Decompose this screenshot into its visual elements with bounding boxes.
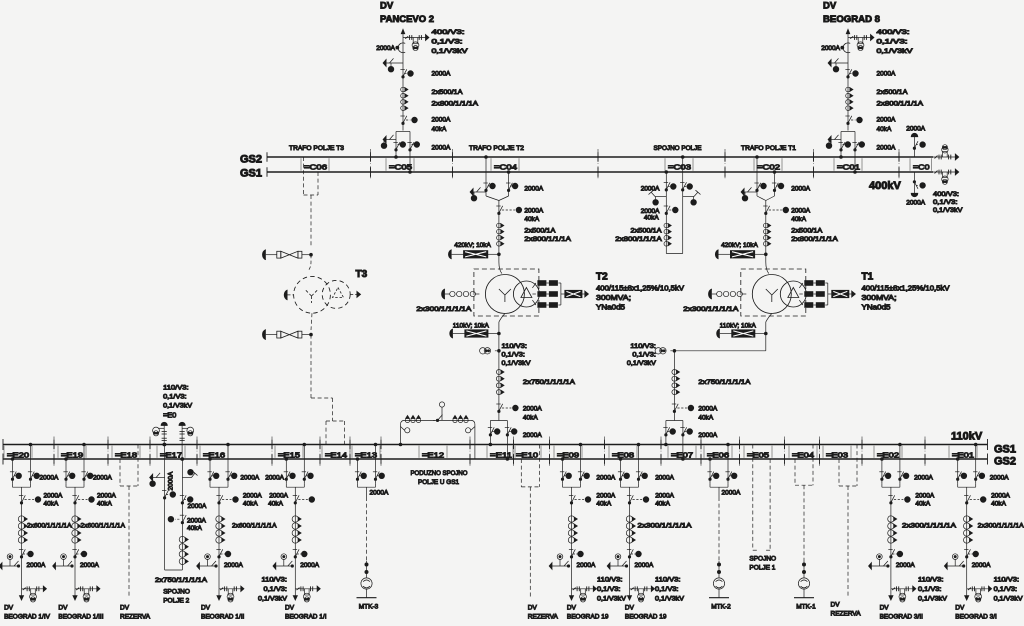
svg-text:=E16: =E16: [203, 451, 225, 460]
future bay =E03 dashed drops: [838, 459, 840, 486]
wire into transformer: [498, 250, 500, 254]
svg-text:=E20: =E20: [7, 451, 29, 460]
bay label =E02: [873, 446, 875, 458]
svg-text:2000A: 2000A: [791, 186, 810, 193]
svg-text:40kA: 40kA: [97, 501, 112, 508]
svg-text:=C04: =C04: [494, 163, 517, 172]
feeder current transformers: [18, 516, 24, 522]
wire disconnector to line exit: [218, 548, 220, 589]
bay separator 110kV: [513, 437, 515, 468]
svg-text:110/V3:: 110/V3:: [994, 577, 1020, 584]
coupler =E17 earthing switch right: [182, 477, 191, 479]
svg-text:0,1/V3:: 0,1/V3:: [933, 199, 958, 206]
svg-text:400/V3:: 400/V3:: [877, 29, 910, 36]
svg-text:2000A: 2000A: [821, 45, 840, 52]
svg-text:=E01: =E01: [952, 451, 974, 460]
future coupler =E05 dashed branches: [752, 445, 754, 551]
feeder drops from buses: [12, 459, 14, 483]
svg-text:40kA: 40kA: [44, 501, 59, 508]
svg-text:110/V3:: 110/V3:: [597, 577, 623, 584]
future surge arrester T3 HV: [263, 250, 266, 260]
coupler =E12 right sensor: [471, 427, 475, 431]
svg-text:420kV; 10kA: 420kV; 10kA: [454, 242, 491, 249]
wire to MTK-1 (PLC coupling): [803, 485, 805, 561]
svg-text:=E10: =E10: [516, 451, 538, 460]
svg-text:MTK-1: MTK-1: [796, 604, 816, 611]
circuit breaker LV: [496, 403, 500, 405]
node arrester LV: [498, 332, 501, 335]
svg-text:DV: DV: [285, 604, 295, 611]
node =E17 GS2: [181, 458, 184, 461]
node =C03 GS2: [681, 156, 684, 159]
svg-text:40kA: 40kA: [523, 415, 538, 422]
node feeder GS2: [561, 458, 564, 461]
node =C03 GS1: [665, 171, 668, 174]
earthing switch at bay top: [473, 191, 486, 193]
svg-text:2000A: 2000A: [635, 562, 654, 569]
coupler circuit breaker: [664, 205, 668, 207]
svg-text:0,1/V3kV: 0,1/V3kV: [877, 48, 914, 55]
svg-text:0,1/V3:: 0,1/V3:: [502, 352, 526, 359]
MTK-2 earth bar: [718, 589, 720, 598]
svg-text:2000A: 2000A: [300, 562, 319, 569]
coupler =E17 left branch: [164, 445, 166, 571]
bus section tick 400kV: [370, 152, 372, 162]
feeder merge: [65, 483, 67, 487]
svg-text:BEOGRAD 1/I: BEOGRAD 1/I: [285, 613, 327, 620]
bus disconnector GS1 BEOGRAD 8: [852, 142, 856, 144]
bay label =E17: [156, 446, 158, 458]
bus disconnector GS2 side: [754, 182, 758, 184]
node PANCEVO 2 GS2: [395, 156, 398, 159]
svg-text:=E0: =E0: [163, 411, 176, 420]
svg-text:GS1: GS1: [240, 168, 262, 180]
node GS2: [709, 458, 712, 461]
bus disconnector GS1 side: [897, 471, 901, 473]
svg-text:0,1/V3kV: 0,1/V3kV: [163, 403, 193, 410]
coupler disconnector left: [664, 182, 668, 184]
bay label =E19: [57, 446, 59, 458]
feeder line disconnector: [627, 549, 631, 551]
svg-text:110/V3:: 110/V3:: [918, 577, 944, 584]
bus disconnector GS1 side: [973, 471, 977, 473]
wire PANCEVO 2 main: [402, 63, 404, 131]
svg-text:2000A: 2000A: [596, 474, 615, 481]
svg-text:=C05: =C05: [389, 163, 412, 172]
node BEOGRAD 8 GS1: [854, 171, 857, 174]
bus disconnector GS1 side: [81, 471, 85, 473]
svg-text:2000A: 2000A: [188, 503, 207, 510]
node feeder GS1: [83, 443, 86, 446]
bus disconnector GS1 side: [772, 182, 776, 184]
bus disconnector GS2 BEOGRAD 8: [838, 142, 842, 144]
bus disconnector GS1 side: [225, 471, 229, 473]
svg-text:400/V3:: 400/V3:: [432, 29, 465, 36]
svg-text:T2: T2: [596, 272, 608, 283]
future bay =C06 dashed drops: [303, 157, 305, 195]
feeder drops from buses: [65, 459, 67, 483]
feeder circuit breaker =E15: [293, 495, 297, 497]
svg-text:110/V3:: 110/V3:: [502, 343, 528, 350]
bus disconnector GS2 side: [284, 471, 288, 473]
feeder earthing switch: [877, 554, 883, 560]
node GS1: [727, 443, 730, 446]
svg-text:2000A: 2000A: [914, 474, 933, 481]
wire disconnector to line exit: [966, 548, 968, 589]
feeder line disconnector: [19, 549, 23, 551]
svg-text:DV: DV: [831, 602, 841, 609]
bay separator 110kV: [319, 437, 321, 468]
line exit with CVT: [219, 588, 242, 590]
bay split to buses: [666, 420, 683, 422]
node VT branch: [673, 350, 676, 353]
bay label =E15: [274, 446, 276, 458]
wire breaker to CT: [890, 497, 892, 548]
wire T1 LV jog: [674, 350, 765, 352]
future bay =E14 dashed box: [325, 421, 327, 441]
wire breaker to CT: [571, 497, 573, 548]
node arrester HV: [765, 253, 768, 256]
svg-text:2000A: 2000A: [722, 490, 741, 497]
coupler =C03 left branch wire: [665, 172, 667, 254]
svg-text:0,1/V3:: 0,1/V3:: [597, 586, 621, 593]
svg-text:TRAFO POLJE T2: TRAFO POLJE T2: [469, 145, 524, 152]
node VT branch: [498, 350, 501, 353]
bay separator 400kV: [370, 149, 372, 180]
feeder earthing switch: [615, 554, 621, 560]
bus disconnector GS2 side: [680, 427, 684, 429]
coupler =E12 top VT: [441, 407, 443, 420]
svg-text:2000A: 2000A: [577, 562, 596, 569]
svg-text:2000A: 2000A: [240, 474, 259, 481]
feeder drops from buses: [562, 459, 564, 483]
coupler earthing switch left: [655, 196, 666, 198]
bus voltage transformer =E0 on GS1: [161, 422, 167, 425]
svg-text:=E08: =E08: [612, 451, 634, 460]
svg-text:420kV; 10kA: 420kV; 10kA: [721, 242, 758, 249]
svg-text:2000A: 2000A: [370, 490, 389, 497]
bay split PANCEVO 2: [396, 131, 410, 133]
bus disconnector GS2 side: [10, 471, 14, 473]
MTK-3 bus disconnector GS2 side: [355, 471, 359, 473]
bus disconnector GS1 side: [636, 471, 640, 473]
svg-text:=C01: =C01: [837, 163, 860, 172]
svg-text:2x750/1/1/1/1A: 2x750/1/1/1/1A: [698, 379, 751, 386]
bus disconnector GS2 side: [560, 471, 564, 473]
bus section tick 400kV: [813, 152, 815, 162]
svg-text:400/V3:: 400/V3:: [933, 191, 959, 198]
tertiary arresters T1: [799, 283, 803, 288]
wire breaker to CT: [498, 205, 500, 250]
wire disconnector to line exit: [74, 548, 76, 589]
svg-text:2x800/1/1/1A: 2x800/1/1/1A: [877, 101, 924, 108]
svg-text:2000A: 2000A: [698, 432, 717, 439]
svg-text:TRAFO POLJE T3: TRAFO POLJE T3: [289, 145, 344, 152]
wire breaker to CT: [218, 497, 220, 548]
MTK-2 drops from buses: [709, 459, 711, 483]
svg-text:DV: DV: [201, 604, 211, 611]
MTK-2 coupling transformer: [713, 578, 724, 589]
bay label =E14: [321, 446, 323, 458]
svg-text:2x800/1/1/1A: 2x800/1/1/1A: [791, 236, 838, 243]
bus disconnector GS2 side: [879, 471, 883, 473]
svg-text:110/V3:: 110/V3:: [163, 385, 189, 392]
svg-text:0,1/V3kV: 0,1/V3kV: [627, 360, 657, 367]
svg-text:2000A: 2000A: [168, 471, 175, 490]
feeder drops from buses: [957, 459, 959, 483]
bus disconnector GS1 side: [488, 427, 492, 429]
bay split BEOGRAD 8: [841, 131, 855, 133]
svg-text:=C03: =C03: [668, 163, 691, 172]
bus section tick 400kV: [452, 152, 454, 162]
svg-text:2000A: 2000A: [265, 474, 284, 481]
bus disconnector GS1 side: [28, 471, 32, 473]
node GS1: [374, 443, 377, 446]
node feeder GS1: [899, 443, 902, 446]
svg-text:2x500/1A: 2x500/1A: [877, 89, 909, 96]
svg-text:2000A: 2000A: [243, 493, 262, 500]
svg-text:2000A: 2000A: [187, 518, 206, 525]
MTK-3 drops from buses: [357, 459, 359, 483]
wire disconnector to line exit: [629, 548, 631, 589]
bus section tick 110kV: [380, 440, 382, 450]
bay label =E13: [351, 446, 353, 458]
svg-text:2x750/1/1/1/1A: 2x750/1/1/1/1A: [155, 577, 208, 584]
svg-text:0,1/V3kV: 0,1/V3kV: [502, 360, 532, 367]
feeder earthing switch: [7, 554, 13, 560]
line exit with CVT: [630, 588, 653, 590]
current transformers: [764, 223, 769, 228]
svg-text:2000A: 2000A: [93, 474, 112, 481]
coupling capacitor / CVT branch PANCEVO 2: [403, 37, 427, 39]
node BEOGRAD 8 GS2: [840, 156, 843, 159]
tertiary arresters T2: [532, 283, 536, 288]
bus section tick 110kV: [271, 440, 273, 450]
bay separator 110kV: [53, 437, 55, 468]
power transformer T1 windings: [752, 275, 791, 314]
current transformers LV: [496, 370, 501, 375]
current transformers BEOGRAD 8: [846, 87, 851, 92]
svg-text:2x800/1/1/1A: 2x800/1/1/1A: [615, 236, 662, 243]
bay label =E08: [608, 446, 610, 458]
wire disconnector to line exit: [571, 548, 573, 589]
feeder line disconnector: [293, 549, 297, 551]
line disconnector PANCEVO 2: [400, 69, 404, 71]
VT branch 110kV side: [495, 350, 499, 352]
svg-text:0,1/V3kV: 0,1/V3kV: [432, 48, 469, 55]
bay separator 110kV: [604, 437, 606, 468]
busbar GS1 110kV: [3, 444, 988, 446]
bus section tick 110kV: [349, 440, 351, 450]
svg-text:=E12: =E12: [422, 451, 444, 460]
bay separator 110kV: [107, 437, 109, 468]
node =E12 GS1: [399, 443, 402, 446]
bus disconnector GS2 side: [618, 471, 622, 473]
line exit with CVT: [891, 588, 914, 590]
wire disconnector to line exit: [890, 548, 892, 589]
node GS2: [485, 156, 488, 159]
bay separator 110kV: [149, 437, 151, 468]
bus section tick 110kV: [469, 440, 471, 450]
svg-text:TRAFO POLJE T1: TRAFO POLJE T1: [741, 145, 796, 152]
node arrester LV: [765, 332, 768, 335]
svg-text:BEOGRAD 1/III: BEOGRAD 1/III: [58, 613, 103, 620]
svg-text:=C02: =C02: [757, 163, 780, 172]
line exit arrow PANCEVO 2: [402, 31, 404, 63]
svg-text:2000A: 2000A: [896, 562, 915, 569]
node =E0 GS1: [163, 443, 166, 446]
bus section tick 110kV: [319, 440, 321, 450]
svg-text:DV: DV: [567, 604, 577, 611]
bay label =E07: [667, 446, 669, 458]
svg-text:2x750/1/1/1/1A: 2x750/1/1/1/1A: [523, 379, 576, 386]
feeder drops from buses: [209, 459, 211, 483]
svg-text:GS1: GS1: [994, 444, 1016, 456]
svg-text:2x600/1/1/1/1A: 2x600/1/1/1/1A: [232, 523, 277, 530]
earthing switch at bay top: [744, 191, 757, 193]
svg-text:0,1/V3:: 0,1/V3:: [432, 39, 463, 46]
bay label =E03: [822, 446, 824, 458]
node GS2: [756, 156, 759, 159]
future wire T3 HV: [310, 195, 312, 247]
node =E17 GS1: [163, 443, 166, 446]
svg-text:PANCEVO 2: PANCEVO 2: [380, 14, 434, 25]
transformer T1 dashed enclosure: [741, 269, 806, 316]
coupler =E12 disconnector: [433, 419, 438, 421]
bay separator 110kV: [271, 437, 273, 468]
svg-text:0,1/V3:: 0,1/V3:: [994, 586, 1018, 593]
svg-text:2000A: 2000A: [523, 406, 542, 413]
tertiary surge arrester T1: [828, 293, 832, 295]
svg-text:BEOGRAD 19: BEOGRAD 19: [625, 613, 667, 620]
bus disconnector GS2 side: [207, 471, 211, 473]
bus section tick 110kV: [660, 440, 662, 450]
svg-text:40kA: 40kA: [991, 501, 1006, 508]
bay label =E18: [111, 446, 113, 458]
feeder merge: [12, 483, 14, 487]
future wire T3 LV: [311, 313, 312, 330]
earthing switch lower PANCEVO 2: [386, 139, 396, 141]
node feeder GS2: [285, 458, 288, 461]
svg-text:=C06: =C06: [304, 163, 327, 172]
bay label =E20: [3, 446, 5, 458]
svg-text:2000A: 2000A: [990, 474, 1009, 481]
bay label =E09: [553, 446, 555, 458]
svg-text:110/V3:: 110/V3:: [262, 577, 288, 584]
feeder circuit breaker: [569, 495, 573, 497]
svg-text:DV: DV: [880, 604, 890, 611]
svg-text:0,1/V3:: 0,1/V3:: [877, 39, 908, 46]
svg-text:2000A: 2000A: [991, 493, 1010, 500]
svg-text:BEOGRAD 19: BEOGRAD 19: [567, 613, 609, 620]
svg-text:110kV; 10kA: 110kV; 10kA: [720, 322, 757, 329]
bay split to buses: [490, 420, 507, 422]
bay label =E01: [948, 446, 950, 458]
node feeder GS1: [29, 443, 32, 446]
bay label =C02: [753, 158, 755, 171]
bay label =E16: [199, 446, 201, 458]
feeder earthing switch: [952, 554, 958, 560]
svg-text:2000A: 2000A: [655, 493, 674, 500]
node =E0 GS2: [181, 458, 184, 461]
coupler =E17 right branch: [181, 459, 183, 570]
bay label =E11: [486, 446, 488, 458]
feeder line disconnector: [964, 549, 968, 551]
future wire =E10: [529, 487, 531, 597]
future power transformer T3: [294, 276, 331, 313]
svg-text:40kA: 40kA: [877, 126, 892, 133]
MTK-3 series capacitor marks: [365, 563, 368, 566]
node arrester HV: [498, 253, 501, 256]
svg-text:2000A: 2000A: [877, 71, 896, 78]
node GS1: [773, 171, 776, 174]
feeder drops from buses: [620, 459, 622, 483]
wire breaker to CT: [765, 205, 767, 250]
svg-text:SPOJNO: SPOJNO: [749, 555, 776, 562]
feeder merge: [209, 483, 211, 487]
bay separator 400kV: [724, 149, 726, 180]
node feeder GS1: [579, 443, 582, 446]
svg-text:400/115±8x1,25%/10,5kV: 400/115±8x1,25%/10,5kV: [596, 284, 684, 293]
node feeder GS1: [227, 443, 230, 446]
bay separator 110kV: [784, 437, 786, 468]
feeder merge: [881, 483, 883, 487]
svg-text:2000A: 2000A: [432, 117, 451, 124]
line exit with CVT: [22, 588, 45, 590]
svg-text:0,1/V3:: 0,1/V3:: [918, 586, 942, 593]
bay label =E04: [788, 446, 790, 458]
svg-text:2000A: 2000A: [524, 208, 543, 215]
svg-text:=E04: =E04: [792, 451, 814, 460]
CVT drum PANCEVO 2: [412, 42, 419, 49]
svg-text:2000A: 2000A: [698, 406, 717, 413]
svg-text:0,1/V3kV: 0,1/V3kV: [994, 596, 1024, 603]
MTK-2 bus disconnector GS2 side: [707, 471, 711, 473]
bay separator 110kV: [739, 437, 741, 468]
future bay =E18 dashed drops: [119, 459, 121, 486]
wave trap PANCEVO 2: [398, 43, 405, 53]
svg-text:0,1/V3:: 0,1/V3:: [163, 394, 187, 401]
svg-text:40kA: 40kA: [243, 501, 258, 508]
svg-text:40kA: 40kA: [268, 501, 283, 508]
wave trap BEOGRAD 8: [843, 43, 850, 53]
node feeder GS2: [209, 458, 212, 461]
bay label =C03: [664, 158, 666, 171]
feeder circuit breaker: [216, 495, 220, 497]
bay separator 400kV: [452, 149, 454, 180]
svg-text:2000A: 2000A: [524, 186, 543, 193]
svg-text:0,1/V3kV: 0,1/V3kV: [597, 596, 627, 603]
svg-text:2x300/1/1/1/1A: 2x300/1/1/1/1A: [902, 523, 957, 530]
wire LV main: [498, 351, 500, 421]
coupling capacitor / CVT branch BEOGRAD 8: [848, 37, 872, 39]
bay separator 400kV: [898, 149, 900, 180]
bay separator 110kV: [380, 437, 382, 468]
svg-text:PODUZNO SPOJNO: PODUZNO SPOJNO: [411, 470, 468, 477]
coupler =E12 left riser: [400, 425, 402, 445]
circuit breaker: [763, 205, 767, 207]
bus section tick 110kV: [700, 440, 702, 450]
svg-text:2000A: 2000A: [224, 562, 243, 569]
svg-text:2000A: 2000A: [269, 493, 288, 500]
feeder circuit breaker: [888, 495, 892, 497]
svg-text:=E14: =E14: [325, 451, 347, 460]
svg-text:REZERVA: REZERVA: [120, 613, 151, 620]
svg-text:2000A: 2000A: [523, 432, 542, 439]
wire to MTK-3 (PLC coupling): [366, 497, 368, 561]
svg-text:T1: T1: [862, 272, 874, 283]
node T3 LV: [310, 333, 313, 336]
